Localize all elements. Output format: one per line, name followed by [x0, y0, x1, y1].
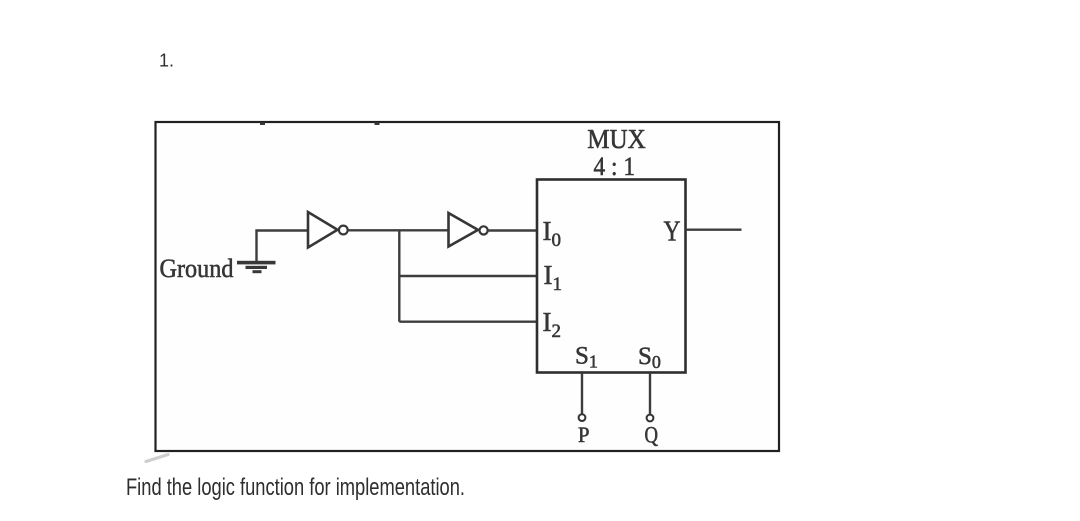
wire to MUX pin I1	[399, 275, 537, 277]
inverter U1	[308, 212, 348, 248]
wire to MUX pin I2	[399, 321, 537, 323]
MUX label	[587, 124, 646, 154]
svg-text:P: P	[578, 422, 590, 447]
MUX ratio label 4 : 1	[594, 152, 636, 181]
wire from S1 down to terminal P	[581, 373, 583, 414]
pin label I0	[543, 216, 562, 251]
svg-text:MUX: MUX	[587, 124, 646, 154]
svg-text:4 : 1: 4 : 1	[594, 152, 636, 181]
terminal label P	[578, 422, 590, 447]
wire from ground up to inverter input	[257, 231, 308, 262]
terminal Q circle	[647, 415, 654, 422]
pin label S0	[638, 343, 661, 372]
wire from S0 down to terminal Q	[649, 373, 651, 415]
wire inverter U1 output to inverter U2 input	[348, 229, 449, 231]
terminal label Q	[645, 423, 659, 448]
ground	[237, 261, 276, 273]
svg-text:Q: Q	[645, 423, 659, 448]
svg-text:Y: Y	[664, 217, 681, 248]
pin label S1	[575, 343, 598, 372]
pin label I1	[544, 260, 563, 295]
pin label Y	[664, 217, 681, 248]
pin label I2	[543, 307, 562, 342]
output wire Y	[686, 228, 742, 230]
svg-text:Find the logic function for im: Find the logic function for implementati…	[126, 474, 465, 501]
vertical branch wire from node at x=399	[398, 230, 400, 321]
terminal P circle	[579, 414, 586, 421]
inverter U2	[449, 213, 488, 247]
svg-text:Ground: Ground	[160, 254, 234, 283]
svg-text:1.: 1.	[159, 51, 174, 71]
wire inverter U2 output to MUX pin I0	[488, 229, 537, 231]
Ground label	[160, 254, 234, 283]
mux U3 body	[537, 180, 686, 373]
